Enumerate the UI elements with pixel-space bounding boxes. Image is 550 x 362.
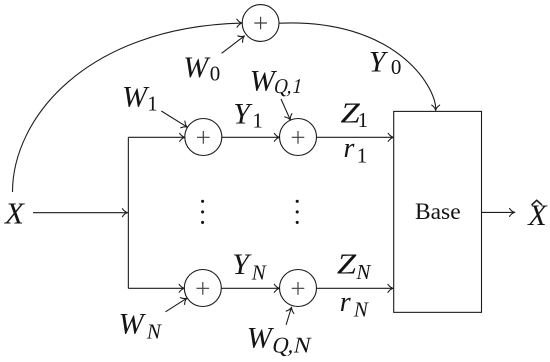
label ZN: [337, 250, 372, 285]
wire X to split node: [33, 209, 128, 217]
svg-text:1: 1: [358, 108, 369, 132]
wire WQ1 to adder A2: [281, 99, 294, 122]
label Y1: [233, 97, 263, 132]
svg-text:Y: Y: [233, 97, 253, 130]
adder A2 (row 1 right): [280, 119, 317, 156]
hat accent: [532, 200, 542, 205]
Base box: [394, 111, 482, 312]
wire adder A1 to adder A2: [222, 133, 280, 141]
wire W0 to top adder: [222, 33, 247, 54]
label W0: [183, 51, 220, 86]
svg-text:N: N: [355, 260, 371, 284]
svg-text:W: W: [247, 321, 275, 354]
label rN: [340, 287, 369, 321]
label W1: [122, 80, 158, 115]
svg-text:1: 1: [252, 109, 263, 133]
label X input: [3, 196, 25, 231]
wire adder B2 to Base box rowN: [317, 284, 394, 292]
adder A1 (row 1 left): [185, 119, 222, 156]
label Base: [415, 199, 461, 225]
svg-text:Z: Z: [337, 250, 357, 281]
adder B2 (row N right): [280, 270, 317, 307]
label Z1: [341, 98, 369, 132]
label Y0: [369, 45, 402, 79]
svg-text:W: W: [183, 51, 211, 84]
svg-text:N: N: [353, 297, 369, 321]
wire Base to output: [482, 208, 515, 216]
wire WN to adder B1: [166, 295, 190, 312]
svg-text:1: 1: [357, 144, 368, 168]
svg-text:1: 1: [147, 92, 158, 116]
svg-text:Y: Y: [369, 45, 389, 78]
wire row1 split to adder A1: [128, 133, 185, 141]
dots left column: [201, 200, 204, 224]
svg-text:X: X: [3, 196, 25, 231]
svg-text:Q,1: Q,1: [272, 74, 305, 98]
svg-text:X: X: [527, 199, 548, 232]
adder U0 (top): [242, 5, 279, 42]
svg-text:N: N: [146, 319, 162, 343]
adder B1 (row N left): [184, 270, 221, 307]
svg-text:Y: Y: [232, 248, 252, 281]
svg-text:W: W: [119, 307, 147, 340]
label WQ1: [250, 64, 305, 97]
wire Y0 curve top adder to Base box: [279, 23, 440, 110]
svg-text:Base: Base: [415, 199, 461, 225]
wire adder A2 to Base box row1: [317, 133, 394, 141]
svg-text:W: W: [122, 80, 150, 113]
label WQN: [247, 321, 313, 357]
wire WQN to adder B2: [286, 306, 295, 325]
dots right column: [296, 200, 299, 224]
wire feedback curve X to top adder: [13, 19, 243, 192]
svg-text:0: 0: [391, 55, 402, 79]
wire vertical split line: [127, 137, 129, 288]
svg-text:r: r: [344, 133, 355, 164]
label r1: [344, 133, 368, 168]
wire adder B1 to adder B2: [221, 284, 279, 292]
svg-text:0: 0: [210, 61, 221, 85]
label X hat output: [527, 199, 548, 232]
wire W1 to adder A1: [161, 111, 189, 131]
svg-text:Q,N: Q,N: [270, 333, 313, 358]
svg-text:r: r: [340, 287, 351, 318]
svg-text:N: N: [251, 260, 267, 284]
label WN: [119, 307, 162, 343]
label YN: [232, 248, 266, 284]
wire rowN split to adder B1: [128, 284, 184, 292]
